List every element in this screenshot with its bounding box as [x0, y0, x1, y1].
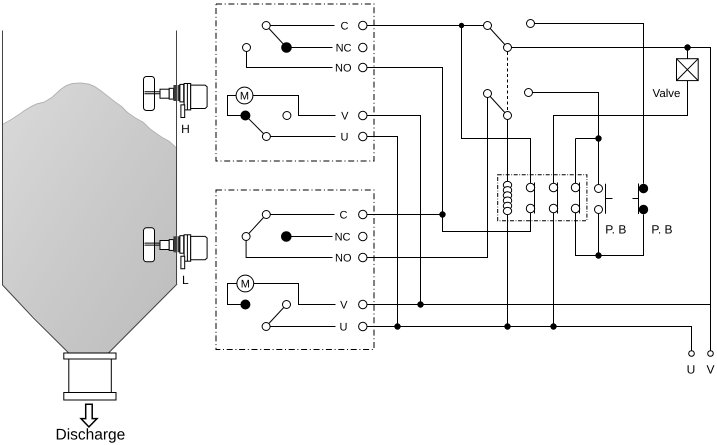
- wire C dot to relay pair1 top: [462, 26, 531, 184]
- wire coil bottom to U rail: [507, 215, 509, 327]
- wire top NO down: [367, 68, 443, 215]
- valve stub: [687, 48, 689, 59]
- svg-text:U: U: [341, 132, 349, 144]
- relay coil: [503, 181, 511, 214]
- svg-text:NO: NO: [335, 63, 352, 75]
- NO contact H: [243, 44, 251, 52]
- svg-text:C: C: [341, 21, 349, 33]
- sensor box H (dash-dot): [216, 4, 374, 161]
- svg-text:NC: NC: [336, 43, 352, 55]
- V free contact H: [283, 112, 291, 120]
- relay contact pair 1: [526, 183, 534, 214]
- wire NO L: [246, 241, 332, 258]
- wire S1 fixed to PB2 top: [535, 24, 644, 184]
- push button PB1: [595, 184, 613, 214]
- terminal NO H: [359, 63, 367, 71]
- svg-text:U: U: [340, 322, 348, 334]
- motor common contact H: [241, 111, 250, 120]
- level sensor L: [144, 228, 208, 269]
- junction PB1 top: [595, 135, 601, 141]
- wire C L: [270, 214, 334, 216]
- wire NO H: [247, 52, 333, 68]
- terminal V H: [359, 111, 367, 119]
- switch arm H: [266, 26, 286, 48]
- relay contact pair 3: [571, 183, 579, 214]
- pivot contact L: [242, 233, 250, 241]
- svg-text:Valve: Valve: [653, 88, 681, 100]
- NC contact L: [282, 232, 292, 242]
- wire S1 to valve and right rail: [512, 48, 711, 351]
- svg-text:V: V: [706, 362, 714, 376]
- svg-text:NO: NO: [335, 253, 352, 265]
- wire M right L: [254, 284, 336, 305]
- wire PB1 bottom: [598, 214, 600, 256]
- wire M left H: [228, 96, 241, 116]
- terminal V supply: [708, 351, 714, 357]
- coupling H: [160, 89, 169, 98]
- tank right wall: [176, 31, 178, 285]
- wire bottom C junction to relay pair1 bottom: [443, 213, 531, 232]
- wire U L: [270, 326, 335, 328]
- terminal C H: [359, 21, 367, 29]
- terminal U L: [359, 322, 367, 330]
- motor switch arm H: [245, 116, 266, 137]
- svg-text:M: M: [240, 91, 249, 103]
- mounting flange H: [173, 85, 176, 101]
- junction U rail 3: [550, 323, 556, 329]
- svg-text:P. B: P. B: [605, 223, 626, 237]
- push button PB2: [633, 184, 648, 215]
- relay box (dash-dot): [498, 175, 587, 221]
- U contact L: [262, 323, 270, 331]
- wire top C to switch S1: [367, 25, 484, 27]
- wire bottom NO to switch S2: [367, 98, 488, 258]
- svg-text:Discharge: Discharge: [56, 427, 126, 444]
- junction PB1 bottom: [595, 252, 601, 258]
- wire NC H: [291, 47, 332, 49]
- switch S1 fixed contact: [527, 20, 535, 28]
- terminal C L: [359, 210, 367, 218]
- material top edge: [3, 83, 178, 149]
- wire valve bottom to relay pair2 top: [554, 81, 688, 184]
- svg-text:C: C: [340, 210, 348, 222]
- wire top U down: [367, 137, 398, 327]
- switch arm L: [246, 215, 266, 237]
- junction V rail: [417, 301, 423, 307]
- switch S2 fixed contact: [525, 89, 533, 97]
- junction valve top: [684, 44, 690, 50]
- terminal V L: [359, 300, 367, 308]
- paddle H: [144, 77, 155, 111]
- terminal U H: [359, 132, 367, 140]
- switch S2 moving contact: [504, 112, 512, 120]
- shaft H: [145, 92, 163, 94]
- housing H: [180, 84, 184, 102]
- wire C H: [270, 25, 334, 27]
- switch S1 pivot: [484, 22, 492, 30]
- wire bottom U rail: [367, 327, 692, 351]
- wire U H: [270, 136, 335, 138]
- U contact H: [262, 133, 270, 141]
- junction U rail 2: [504, 323, 510, 329]
- wire pair3 bottom to PB2 bottom: [576, 213, 644, 256]
- relay contact pair 2: [549, 183, 557, 214]
- discharge tube: [69, 359, 112, 393]
- wire M left L: [228, 284, 241, 305]
- valve: [677, 59, 699, 81]
- terminal U supply: [689, 351, 695, 357]
- svg-text:NC: NC: [335, 232, 351, 244]
- bracket H: [181, 105, 185, 118]
- wire pair3 stub: [576, 138, 599, 140]
- junction C-S1: [459, 23, 464, 28]
- tank left wall: [2, 31, 4, 286]
- wire pair2 bottom to U rail: [553, 213, 555, 327]
- svg-text:P. B: P. B: [651, 223, 672, 237]
- discharge arrow: [81, 404, 97, 427]
- pivot contact H: [262, 22, 270, 30]
- hopper cone right edge: [109, 284, 178, 353]
- junction U rail 1: [394, 323, 400, 329]
- svg-text:V: V: [341, 111, 349, 123]
- ganged link dashed: [507, 52, 509, 111]
- wire top V down: [367, 116, 421, 305]
- level sensor H: [144, 77, 208, 118]
- junction bottom C: [439, 211, 445, 217]
- svg-text:H: H: [181, 122, 190, 136]
- terminal NC L: [359, 232, 367, 240]
- hopper cone left edge: [3, 285, 70, 354]
- terminal NC H: [359, 43, 367, 51]
- wire bottom V rail: [367, 304, 711, 306]
- svg-text:M: M: [241, 279, 250, 291]
- terminal NO L: [359, 253, 367, 261]
- wire bottom C to junction: [367, 214, 443, 216]
- NC contact H: [282, 43, 292, 53]
- switch S2 arm: [488, 94, 508, 116]
- wire S2 to relay coil: [507, 120, 509, 182]
- hopper material fill: [3, 83, 178, 353]
- switch S2 pivot: [484, 90, 492, 98]
- wire M right H: [253, 96, 336, 116]
- motor M L: [237, 275, 254, 292]
- motor M H: [236, 87, 253, 104]
- svg-text:V: V: [340, 300, 348, 312]
- wire NC L: [291, 236, 332, 238]
- V free contact L: [283, 301, 291, 309]
- svg-text:U: U: [687, 362, 696, 376]
- motor switch arm L: [266, 305, 286, 327]
- wire S2 fixed to PB1 top: [533, 93, 599, 185]
- sensor box L (dash-dot): [216, 190, 374, 350]
- switch S1 arm: [488, 26, 508, 48]
- discharge flange lower: [64, 393, 116, 401]
- svg-text:L: L: [182, 273, 189, 287]
- switch S1 moving contact: [504, 44, 512, 52]
- motor common contact L: [241, 300, 250, 309]
- wire pair3 top: [575, 139, 577, 184]
- C contact L: [262, 211, 270, 219]
- discharge flange upper: [64, 353, 116, 359]
